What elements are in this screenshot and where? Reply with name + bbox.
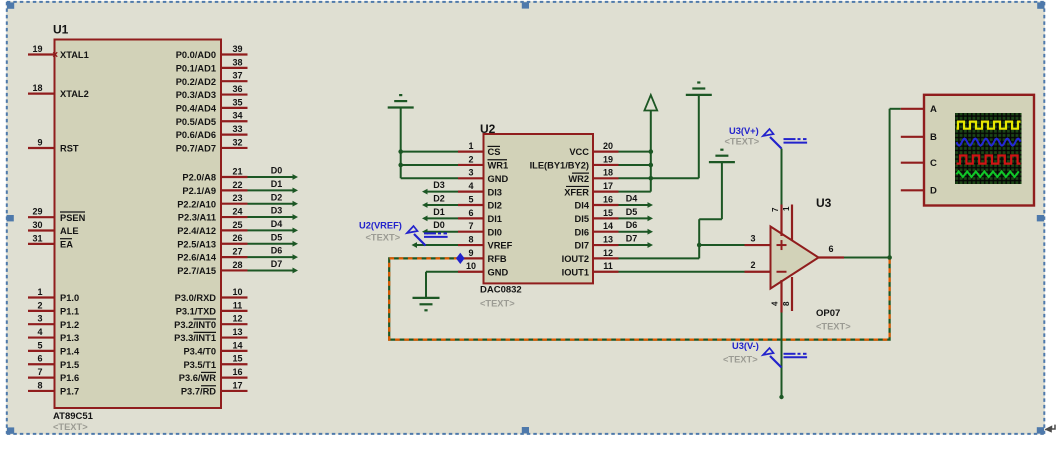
U1 pin 30 ALE stub <box>28 229 55 231</box>
svg-text:GND: GND <box>488 267 509 277</box>
selection handle <box>7 2 14 8</box>
svg-text:P0.0/AD0: P0.0/AD0 <box>176 50 216 60</box>
U2 pin 19 ILE(BY1/BY2) stub <box>593 164 619 166</box>
U2 pin 9 RFB stub <box>458 257 484 259</box>
wire D0 into U2 pin 7 <box>427 231 458 233</box>
svg-text:DI2: DI2 <box>488 201 502 211</box>
U1 pin 29 PSEN stub <box>28 216 55 218</box>
svg-text:P3.5/T1: P3.5/T1 <box>183 360 216 370</box>
svg-text:37: 37 <box>232 71 242 81</box>
U1 pin 7 P1.6 stub <box>28 377 55 379</box>
U2 pin 18 WR2 stub <box>593 177 619 179</box>
wire D6 from U1 P2.6 <box>248 256 294 258</box>
junction rail-pin20 <box>649 149 654 154</box>
wire D0 from U1 P2.0 <box>248 176 294 178</box>
svg-text:DI0: DI0 <box>488 227 502 237</box>
selection handle <box>522 2 529 8</box>
U2 pin 13 DI7 stub <box>593 244 619 246</box>
U2 pin 20 VCC stub <box>593 151 619 153</box>
svg-text:P0.7/AD7: P0.7/AD7 <box>176 144 216 154</box>
svg-text:1: 1 <box>468 141 473 151</box>
wire U2 pin19 ILE to rail <box>619 164 651 166</box>
svg-text:P1.6: P1.6 <box>60 373 79 383</box>
U1 pin 25 P2.4/A12 stub <box>221 229 248 231</box>
selection handle <box>1037 215 1044 221</box>
svg-text:33: 33 <box>232 124 242 134</box>
svg-text:4: 4 <box>37 327 42 337</box>
svg-text:P2.7/A15: P2.7/A15 <box>177 266 216 276</box>
U1 pin 22 P2.1/A9 stub <box>221 189 248 191</box>
svg-text:2: 2 <box>468 154 473 164</box>
mouse cursor arrow <box>1045 425 1055 430</box>
U3 pin2 inverting stub <box>745 271 771 273</box>
U1 pin 19 XTAL1 stub <box>28 53 55 55</box>
svg-text:11: 11 <box>233 300 243 310</box>
scope channel A stub <box>901 108 924 110</box>
wire + node to opamp pin3 <box>699 244 744 246</box>
svg-text:27: 27 <box>232 247 242 257</box>
selection handle <box>522 427 529 433</box>
svg-text:D0: D0 <box>433 220 445 230</box>
svg-text:ALE: ALE <box>60 226 79 236</box>
scope trace A yellow square wave <box>957 122 1021 129</box>
svg-text:30: 30 <box>32 220 42 230</box>
wire U2 pin20 VCC to rail <box>619 151 651 153</box>
svg-text:4: 4 <box>771 301 780 306</box>
terminal U3(V-) bars <box>784 353 796 355</box>
svg-text:D5: D5 <box>626 207 638 217</box>
U1 pin 36 P0.3/AD3 stub <box>221 93 248 95</box>
svg-text:3: 3 <box>468 168 473 178</box>
svg-text:13: 13 <box>603 234 613 244</box>
svg-text:2: 2 <box>37 300 42 310</box>
svg-text:<TEXT>: <TEXT> <box>725 137 760 147</box>
svg-text:9: 9 <box>468 248 473 258</box>
component origin marker at XTAL1 pin <box>53 52 57 57</box>
svg-text:17: 17 <box>603 181 613 191</box>
U1 pin 11 P3.1/TXD stub <box>221 310 248 312</box>
svg-text:5: 5 <box>468 194 473 204</box>
svg-text:P2.2/A10: P2.2/A10 <box>177 199 216 209</box>
wire U2 pin3 GND to ground stem <box>401 177 458 179</box>
wire D5 from U1 P2.5 <box>248 243 294 245</box>
U1 pin 12 P3.2/INT0 stub <box>221 323 248 325</box>
svg-text:ILE(BY1/BY2): ILE(BY1/BY2) <box>530 161 589 171</box>
svg-text:D0: D0 <box>271 166 283 176</box>
svg-text:<TEXT>: <TEXT> <box>723 355 758 365</box>
svg-text:38: 38 <box>232 57 242 67</box>
svg-text:IOUT1: IOUT1 <box>562 267 589 277</box>
wire U2 pin2 WR1 to ground stem <box>401 164 458 166</box>
svg-text:D7: D7 <box>271 259 283 269</box>
svg-text:P2.5/A13: P2.5/A13 <box>177 239 216 249</box>
selected wire RFB feedback (dashed) <box>389 258 889 340</box>
terminal U2(VREF) flag <box>414 234 426 246</box>
svg-text:WR2: WR2 <box>568 174 589 184</box>
svg-text:18: 18 <box>603 168 613 178</box>
svg-text:P0.3/AD3: P0.3/AD3 <box>176 90 216 100</box>
junction rail-pin19 <box>649 163 654 168</box>
svg-text:10: 10 <box>466 261 476 271</box>
wire U2 pin17 XFER to rail <box>619 191 651 193</box>
svg-text:1: 1 <box>37 287 42 297</box>
svg-text:RST: RST <box>60 144 79 154</box>
svg-text:DAC0832: DAC0832 <box>480 285 522 296</box>
svg-text:A: A <box>930 104 937 115</box>
svg-text:36: 36 <box>232 84 242 94</box>
dac U2 body <box>484 134 594 283</box>
U1 pin 33 P0.6/AD6 stub <box>221 134 248 136</box>
U1 pin 28 P2.7/A15 stub <box>221 269 248 271</box>
svg-text:D6: D6 <box>271 246 283 256</box>
U1 pin 1 P1.0 stub <box>28 296 55 298</box>
svg-text:8: 8 <box>468 234 473 244</box>
svg-text:7: 7 <box>37 367 42 377</box>
svg-text:P0.4/AD4: P0.4/AD4 <box>176 104 217 114</box>
selection handle <box>1037 2 1044 8</box>
svg-text:<TEXT>: <TEXT> <box>53 422 88 432</box>
svg-text:PSEN: PSEN <box>60 213 86 223</box>
U1 pin 31 EA stub <box>28 243 55 245</box>
svg-text:B: B <box>930 132 937 143</box>
svg-text:12: 12 <box>232 314 242 324</box>
svg-text:D2: D2 <box>271 192 283 202</box>
U2 pin 14 DI6 stub <box>593 231 619 233</box>
U1 pin 4 P1.3 stub <box>28 336 55 338</box>
svg-text:<TEXT>: <TEXT> <box>816 322 851 332</box>
svg-text:4: 4 <box>468 181 473 191</box>
U2 pin 6 DI1 stub <box>458 217 484 219</box>
svg-text:D3: D3 <box>433 180 445 190</box>
svg-text:DI4: DI4 <box>575 201 590 211</box>
wire U3 V+ supply <box>781 149 783 205</box>
svg-text:U2(VREF): U2(VREF) <box>359 221 402 231</box>
U1 pin 23 P2.2/A10 stub <box>221 203 248 205</box>
U1 pin 21 P2.0/A8 stub <box>221 176 248 178</box>
svg-text:P3.0/RXD: P3.0/RXD <box>175 293 217 303</box>
U3 plus symbol <box>777 244 787 246</box>
svg-text:P1.0: P1.0 <box>60 293 79 303</box>
ground G3 for opamp + input <box>709 161 735 163</box>
U2 pin 1 CS stub <box>458 151 484 153</box>
svg-text:U2: U2 <box>480 122 496 136</box>
svg-text:34: 34 <box>232 111 242 121</box>
svg-text:AT89C51: AT89C51 <box>53 411 94 422</box>
svg-text:8: 8 <box>37 380 42 390</box>
svg-text:P2.4/A12: P2.4/A12 <box>177 226 216 236</box>
svg-text:P2.3/A11: P2.3/A11 <box>178 213 216 223</box>
svg-text:P0.2/AD2: P0.2/AD2 <box>176 77 216 87</box>
selection dashed border <box>7 1 1045 3</box>
U2 pin 11 IOUT1 stub <box>593 271 619 273</box>
svg-text:32: 32 <box>232 137 242 147</box>
U2 pin 5 DI2 stub <box>458 204 484 206</box>
svg-text:6: 6 <box>468 208 473 218</box>
svg-text:P2.6/A14: P2.6/A14 <box>177 253 217 263</box>
svg-text:16: 16 <box>232 367 242 377</box>
svg-text:GND: GND <box>488 174 509 184</box>
U2 pin 15 DI5 stub <box>593 217 619 219</box>
svg-text:DI6: DI6 <box>575 227 589 237</box>
U3 pin3 noninverting stub <box>745 244 771 246</box>
svg-text:P1.2: P1.2 <box>60 320 79 330</box>
U1 pin 27 P2.6/A14 stub <box>221 256 248 258</box>
svg-text:P0.5/AD5: P0.5/AD5 <box>176 117 216 127</box>
svg-text:XTAL2: XTAL2 <box>60 89 89 99</box>
svg-text:3: 3 <box>750 233 755 243</box>
svg-text:6: 6 <box>37 354 42 364</box>
scope screen <box>955 113 1022 184</box>
U2 pin 4 DI3 stub <box>458 191 484 193</box>
svg-text:OP07: OP07 <box>816 308 840 319</box>
wire D4 from U1 P2.4 <box>248 229 294 231</box>
U2 pin 7 DI0 stub <box>458 231 484 233</box>
wire U2 pin10 GND down to ground G4 <box>426 271 458 273</box>
svg-text:VREF: VREF <box>488 241 513 251</box>
ground G4 below U2 <box>413 297 440 299</box>
svg-text:IOUT2: IOUT2 <box>562 254 589 264</box>
op-amp U3 body <box>771 227 819 289</box>
svg-text:P3.1/TXD: P3.1/TXD <box>176 306 217 316</box>
U1 pin 5 P1.4 stub <box>28 350 55 352</box>
svg-text:D6: D6 <box>626 220 638 230</box>
svg-text:D5: D5 <box>271 232 283 242</box>
svg-text:P3.2/INT0: P3.2/INT0 <box>174 320 216 330</box>
wire D2 from U1 P2.2 <box>248 203 294 205</box>
svg-text:14: 14 <box>603 221 613 231</box>
wire D2 into U2 pin 5 <box>427 204 458 206</box>
U2 pin 12 IOUT2 stub <box>593 257 619 259</box>
svg-text:1: 1 <box>782 206 791 211</box>
svg-text:7: 7 <box>468 221 473 231</box>
wire D4 from U2 pin 16 <box>619 204 649 206</box>
U2 pin 2 WR1 stub <box>458 164 484 166</box>
power terminal arrow VCC <box>644 95 657 111</box>
svg-text:P1.3: P1.3 <box>60 333 79 343</box>
svg-text:U3: U3 <box>816 196 832 210</box>
svg-text:D: D <box>930 186 937 197</box>
wire output node up to scope A <box>889 109 891 258</box>
svg-text:D1: D1 <box>271 179 283 189</box>
junction output node <box>887 255 892 260</box>
svg-text:P1.1: P1.1 <box>60 306 79 316</box>
svg-text:18: 18 <box>32 83 42 93</box>
wire U3 V- supply <box>781 313 783 398</box>
svg-text:13: 13 <box>232 327 242 337</box>
U1 pin 3 P1.2 stub <box>28 323 55 325</box>
svg-text:3: 3 <box>37 314 42 324</box>
svg-text:28: 28 <box>232 260 242 270</box>
svg-text:P3.3/INT1: P3.3/INT1 <box>174 333 216 343</box>
U2 pin 8 VREF stub <box>458 244 484 246</box>
wire ground G3 stem jog <box>721 162 723 219</box>
U1 pin 34 P0.5/AD5 stub <box>221 120 248 122</box>
svg-text:23: 23 <box>232 193 242 203</box>
junction at ground stem and pin2 wire <box>398 163 403 168</box>
svg-text:P1.5: P1.5 <box>60 360 79 370</box>
svg-text:U3(V+): U3(V+) <box>729 126 759 136</box>
svg-text:P3.4/T0: P3.4/T0 <box>183 347 216 357</box>
svg-text:2: 2 <box>750 260 755 270</box>
svg-text:20: 20 <box>603 141 613 151</box>
svg-text:U1: U1 <box>53 23 69 37</box>
svg-text:P3.7/RD: P3.7/RD <box>181 387 216 397</box>
wire D5 from U2 pin 15 <box>619 217 649 219</box>
svg-text:D7: D7 <box>626 233 638 243</box>
U1 pin 10 P3.0/RXD stub <box>221 296 248 298</box>
svg-text:7: 7 <box>771 207 780 212</box>
svg-text:11: 11 <box>603 261 613 271</box>
svg-text:EA: EA <box>60 240 73 250</box>
junction at ground stem and pin1 wire <box>398 149 403 154</box>
selection handle <box>7 215 14 221</box>
svg-text:5: 5 <box>37 340 42 350</box>
svg-text:<TEXT>: <TEXT> <box>480 299 515 309</box>
svg-text:D4: D4 <box>626 193 638 203</box>
wire D6 from U2 pin 14 <box>619 231 649 233</box>
svg-text:D1: D1 <box>433 207 445 217</box>
svg-text:P2.0/A8: P2.0/A8 <box>182 173 216 183</box>
U1 pin 15 P3.5/T1 stub <box>221 363 248 365</box>
U3 pin6 output stub <box>819 256 845 258</box>
U1 pin 39 P0.0/AD0 stub <box>221 53 248 55</box>
oscilloscope body <box>924 95 1034 206</box>
svg-text:15: 15 <box>232 354 242 364</box>
wire U2 pin12 IOUT2 to + node <box>619 257 700 259</box>
wire ground G1 stem to U2 pins 1-3 <box>400 108 402 179</box>
svg-text:D4: D4 <box>271 219 283 229</box>
svg-text:CS: CS <box>488 147 501 157</box>
wire D1 from U1 P2.1 <box>248 189 294 191</box>
U1 pin 18 XTAL2 stub <box>28 92 55 94</box>
U1 pin 26 P2.5/A13 stub <box>221 243 248 245</box>
selection handle <box>7 427 14 433</box>
U3 bottom power stubs pins 4 and 8 <box>780 280 782 313</box>
svg-text:<TEXT>: <TEXT> <box>366 232 401 242</box>
wire VCC vertical rail <box>650 111 652 192</box>
ground G2 above WR2 net <box>686 94 712 96</box>
mcu U1 body <box>55 40 222 409</box>
scope channel D stub <box>901 189 924 191</box>
junction opamp + node <box>697 243 702 248</box>
wire D3 into U2 pin 4 <box>427 191 458 193</box>
svg-text:P0.1/AD1: P0.1/AD1 <box>176 63 216 73</box>
svg-text:12: 12 <box>603 248 613 258</box>
drag handle diamond at U2 pin9 RFB <box>456 253 465 264</box>
svg-text:P1.7: P1.7 <box>60 387 79 397</box>
svg-text:DI1: DI1 <box>488 214 502 224</box>
svg-text:D3: D3 <box>271 206 283 216</box>
svg-text:RFB: RFB <box>488 254 507 264</box>
svg-text:16: 16 <box>603 194 613 204</box>
U2 pin 3 GND stub <box>458 177 484 179</box>
U3 top power stubs pins 7 and 1 <box>780 205 782 237</box>
svg-text:35: 35 <box>232 97 242 107</box>
svg-text:25: 25 <box>232 220 242 230</box>
wire VREF terminal to U2 pin8 <box>416 244 458 246</box>
svg-text:D2: D2 <box>433 193 445 203</box>
U1 pin 38 P0.1/AD1 stub <box>221 67 248 69</box>
svg-text:21: 21 <box>232 166 242 176</box>
wire U3 output to scope node <box>844 257 890 259</box>
U1 pin 24 P2.3/A11 stub <box>221 216 248 218</box>
wire D3 from U1 P2.3 <box>248 216 294 218</box>
scope trace C red square wave <box>957 156 1021 164</box>
svg-text:31: 31 <box>32 233 42 243</box>
U1 pin 14 P3.4/T0 stub <box>221 350 248 352</box>
wire U2 pin11 IOUT1 to opamp pin2 <box>619 271 745 273</box>
wire U2 pin18 WR2 to ground G2 <box>619 177 699 179</box>
U2 pin 16 DI4 stub <box>593 204 619 206</box>
svg-text:14: 14 <box>232 340 242 350</box>
svg-text:9: 9 <box>37 137 42 147</box>
svg-text:XFER: XFER <box>564 187 589 197</box>
scope channel B stub <box>901 136 924 138</box>
svg-text:10: 10 <box>232 287 242 297</box>
svg-text:22: 22 <box>232 180 242 190</box>
terminal U3(V+) bars <box>784 138 796 140</box>
wire D7 from U1 P2.7 <box>248 269 294 271</box>
svg-text:6: 6 <box>828 244 833 254</box>
svg-text:8: 8 <box>782 301 791 306</box>
svg-text:P0.6/AD6: P0.6/AD6 <box>176 130 216 140</box>
U3 minus symbol <box>777 271 787 273</box>
U1 pin 8 P1.7 stub <box>28 390 55 392</box>
svg-text:P2.1/A9: P2.1/A9 <box>182 186 216 196</box>
selection handle <box>1037 427 1044 433</box>
terminal U3(V+) flag <box>770 137 782 149</box>
wire D1 into U2 pin 6 <box>427 217 458 219</box>
wire end dot V- <box>779 395 783 399</box>
scope trace B blue sine wave <box>957 139 1021 146</box>
U2 pin 17 XFER stub <box>593 191 619 193</box>
svg-text:17: 17 <box>232 380 242 390</box>
svg-text:P3.6/WR: P3.6/WR <box>179 373 216 383</box>
U1 pin 35 P0.4/AD4 stub <box>221 107 248 109</box>
svg-text:P1.4: P1.4 <box>60 347 80 357</box>
svg-text:19: 19 <box>603 154 613 164</box>
svg-text:C: C <box>930 158 937 169</box>
U1 pin 37 P0.2/AD2 stub <box>221 80 248 82</box>
svg-text:39: 39 <box>232 44 242 54</box>
ground G1 left of U2 <box>388 106 414 108</box>
svg-text:U3(V-): U3(V-) <box>732 341 759 351</box>
terminal U3(V-) flag <box>770 356 782 368</box>
svg-text:DI5: DI5 <box>575 214 589 224</box>
svg-text:26: 26 <box>232 233 242 243</box>
svg-text:WR1: WR1 <box>488 161 509 171</box>
U1 pin 32 P0.7/AD7 stub <box>221 147 248 149</box>
wire U2 pin1 CS to ground stem <box>401 151 458 153</box>
svg-text:15: 15 <box>603 208 613 218</box>
svg-text:VCC: VCC <box>569 147 589 157</box>
svg-text:DI3: DI3 <box>488 187 502 197</box>
U1 pin 13 P3.3/INT1 stub <box>221 336 248 338</box>
svg-text:24: 24 <box>232 206 242 216</box>
wire D7 from U2 pin 13 <box>619 244 649 246</box>
svg-text:29: 29 <box>32 207 42 217</box>
U1 pin 16 P3.6/WR stub <box>221 377 248 379</box>
scope trace D green triangle wave <box>957 171 1019 177</box>
scope channel C stub <box>901 162 924 164</box>
svg-text:DI7: DI7 <box>575 241 589 251</box>
junction rail-pin18 wire <box>649 176 654 181</box>
U1 pin 9 RST stub <box>28 147 55 149</box>
U1 pin 6 P1.5 stub <box>28 363 55 365</box>
svg-text:19: 19 <box>32 44 42 54</box>
U1 pin 17 P3.7/RD stub <box>221 390 248 392</box>
U2 pin 10 GND stub <box>458 271 484 273</box>
